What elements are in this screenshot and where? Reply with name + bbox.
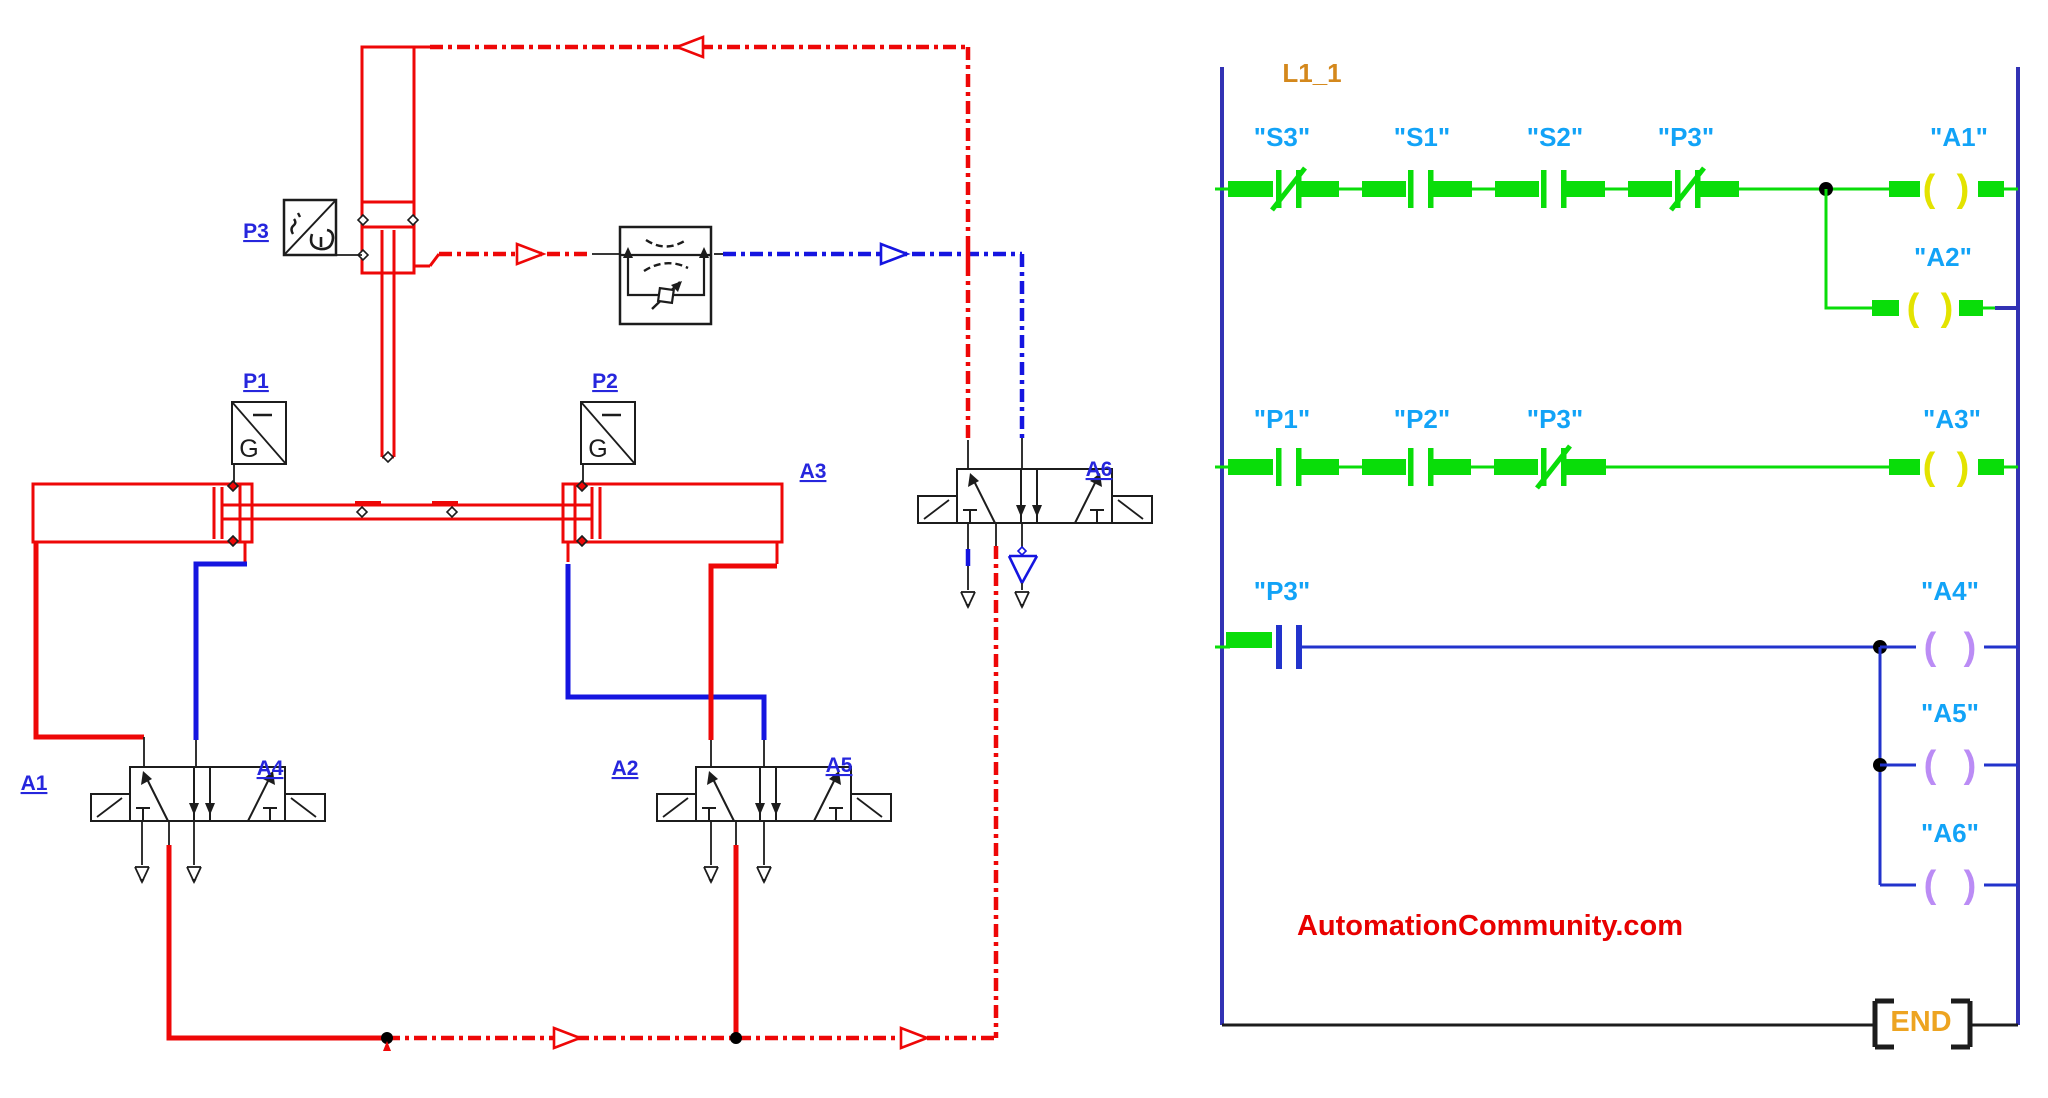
svg-text:): ) — [1964, 744, 1977, 786]
svg-text:A5: A5 — [826, 754, 853, 777]
svg-text:(: ( — [1923, 446, 1936, 488]
svg-text:L1_1: L1_1 — [1282, 58, 1341, 88]
svg-text:(: ( — [1924, 744, 1937, 786]
svg-text:A6: A6 — [1086, 458, 1113, 481]
svg-text:P3: P3 — [243, 220, 269, 243]
svg-text:(: ( — [1924, 864, 1937, 906]
svg-text:"P1": "P1" — [1254, 404, 1310, 434]
svg-text:A3: A3 — [800, 460, 827, 483]
svg-text:END: END — [1890, 1006, 1951, 1038]
svg-text:"A3": "A3" — [1923, 404, 1981, 434]
svg-text:"P3": "P3" — [1254, 576, 1310, 606]
svg-text:): ) — [1964, 626, 1977, 668]
svg-text:): ) — [1957, 168, 1970, 210]
svg-text:A1: A1 — [21, 772, 48, 795]
svg-text:G: G — [239, 435, 258, 463]
svg-text:"P3": "P3" — [1527, 404, 1583, 434]
svg-text:"P3": "P3" — [1658, 122, 1714, 152]
svg-text:A4: A4 — [257, 757, 284, 780]
svg-text:"S1": "S1" — [1394, 122, 1450, 152]
svg-text:"S3": "S3" — [1254, 122, 1310, 152]
svg-text:"A2": "A2" — [1914, 242, 1972, 272]
svg-text:"A4": "A4" — [1921, 576, 1979, 606]
svg-text:(: ( — [1923, 168, 1936, 210]
svg-text:AutomationCommunity.com: AutomationCommunity.com — [1297, 910, 1683, 942]
svg-text:A2: A2 — [612, 757, 639, 780]
svg-text:G: G — [588, 435, 607, 463]
svg-text:"A1": "A1" — [1930, 122, 1988, 152]
svg-text:"P2": "P2" — [1394, 404, 1450, 434]
svg-text:"A5": "A5" — [1921, 698, 1979, 728]
svg-text:"A6": "A6" — [1921, 818, 1979, 848]
svg-text:(: ( — [1924, 626, 1937, 668]
svg-text:): ) — [1964, 864, 1977, 906]
svg-text:): ) — [1957, 446, 1970, 488]
svg-text:"S2": "S2" — [1527, 122, 1583, 152]
svg-text:P2: P2 — [592, 370, 618, 393]
svg-text:P1: P1 — [243, 370, 269, 393]
svg-text:(: ( — [1907, 287, 1920, 329]
svg-text:): ) — [1941, 287, 1954, 329]
